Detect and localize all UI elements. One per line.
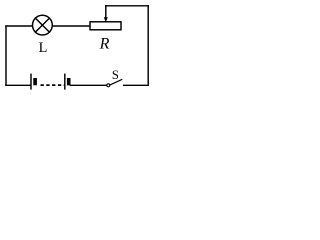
rheostat R (body rectangle) <box>90 22 121 30</box>
battery cell 2 short thick plate <box>67 78 71 85</box>
battery cell 1 short thick plate <box>33 78 37 85</box>
battery cell 2 long plate <box>64 74 66 89</box>
lamp X cross <box>35 18 49 32</box>
battery dashed link between cells <box>41 84 65 86</box>
switch S blade <box>110 80 121 85</box>
wire: battery to switch contact <box>70 84 107 86</box>
svg-text:L: L <box>39 40 48 56</box>
rheostat wiper arrowhead <box>104 17 108 22</box>
lamp L (circle) <box>33 15 53 35</box>
wire: bottom-left from border to battery <box>6 84 30 86</box>
wire: lamp to rheostat <box>52 25 90 27</box>
switch S contact circle <box>107 84 110 87</box>
wire: left border vertical <box>5 26 7 85</box>
battery cell 1 long plate <box>30 74 32 89</box>
wire: top-left horizontal from left border to lamp <box>6 25 33 27</box>
rheostat wiper stem wire <box>105 6 107 18</box>
svg-text:R: R <box>99 36 110 53</box>
wire: bottom-right from corner to switch <box>124 84 149 86</box>
wire: right border vertical <box>147 6 149 86</box>
svg-text:S: S <box>112 68 119 82</box>
wire: top branch from wiper to top-right corner <box>106 5 148 7</box>
